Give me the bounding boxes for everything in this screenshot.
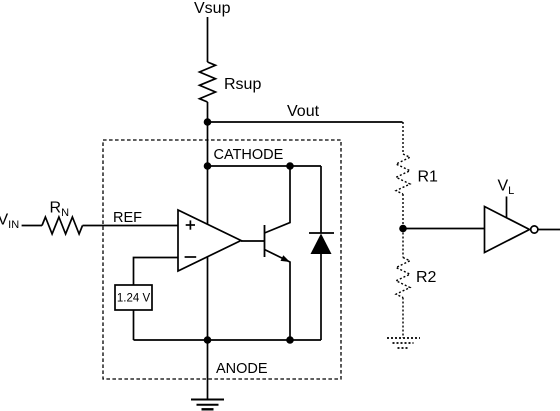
wire Vout to R1 (dashed) [402, 122, 404, 154]
resistor R2 (dashed) [396, 258, 410, 298]
wire logic output [538, 229, 560, 231]
op-amp plus input mark [186, 224, 195, 226]
wire diode branch top [320, 166, 322, 233]
wire R2 to dashed ground [402, 298, 404, 339]
node Vout junction [204, 118, 212, 126]
wire R1 to divider node (dashed) [402, 194, 404, 229]
wire REF input to plus [83, 225, 179, 227]
svg-text:CATHODE: CATHODE [214, 147, 284, 163]
wire op-amp output to base [241, 240, 265, 242]
resistor R1 (dashed) [396, 154, 410, 194]
op-amp minus input mark [185, 256, 197, 258]
ground (dashed) [387, 337, 420, 339]
wire cathode rail [208, 165, 322, 167]
junction anode-main [204, 336, 212, 344]
svg-text:R1: R1 [418, 169, 439, 186]
node divider junction [399, 225, 407, 233]
svg-text:R2: R2 [416, 269, 437, 286]
wire anode rail [134, 339, 322, 341]
svg-text:ANODE: ANODE [216, 361, 268, 377]
wire VIN to RN [22, 225, 42, 227]
diode D1 cathode bar [309, 232, 334, 234]
junction cathode-collector [286, 162, 294, 170]
svg-text:1.24 V: 1.24 V [117, 293, 151, 305]
wire Vout horizontal [208, 121, 403, 123]
wire VL supply to gate [506, 197, 508, 218]
wire diode to anode rail [320, 254, 322, 340]
transistor Q1 emitter arrow [281, 255, 291, 262]
junction anode-emitter [286, 336, 294, 344]
wire Rsup to Vout node [207, 102, 209, 166]
svg-text:Rsup: Rsup [224, 76, 261, 93]
logic gate U2 [485, 207, 530, 253]
op-amp U1 [178, 210, 241, 271]
svg-text:REF: REF [113, 210, 142, 226]
wire reference to anode rail [133, 310, 135, 340]
junction cathode-main [204, 162, 212, 170]
wire main vertical through box [207, 166, 209, 340]
wire divider node to R2 (dashed) [402, 229, 404, 258]
transistor Q1 emitter [265, 250, 291, 341]
ground [191, 399, 224, 401]
voltage reference 1.24V box [115, 285, 152, 310]
transistor Q1 base bar [264, 225, 266, 257]
svg-text:Vout: Vout [287, 103, 320, 120]
resistor Rsup [200, 62, 216, 102]
wire Vsup to Rsup [207, 17, 209, 62]
svg-text:Vsup: Vsup [194, 0, 231, 17]
transistor Q1 collector [265, 166, 291, 233]
wire divider node to logic input [403, 228, 485, 230]
resistor RN [42, 217, 83, 234]
dashed device boundary box [103, 140, 341, 379]
wire anode to ground [207, 340, 209, 400]
diode D1 [311, 234, 332, 255]
wire minus input to reference [134, 258, 179, 286]
logic gate inversion bubble [531, 226, 538, 233]
